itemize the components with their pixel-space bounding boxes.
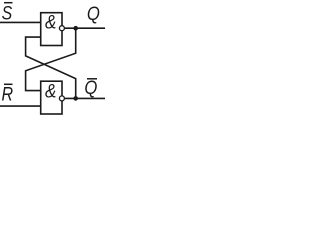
svg-text:Q: Q [84,77,97,99]
svg-text:S: S [2,2,13,24]
svg-text:&: & [45,12,56,34]
svg-text:Q: Q [87,3,100,25]
svg-text:R: R [2,83,14,105]
svg-text:&: & [45,81,56,103]
